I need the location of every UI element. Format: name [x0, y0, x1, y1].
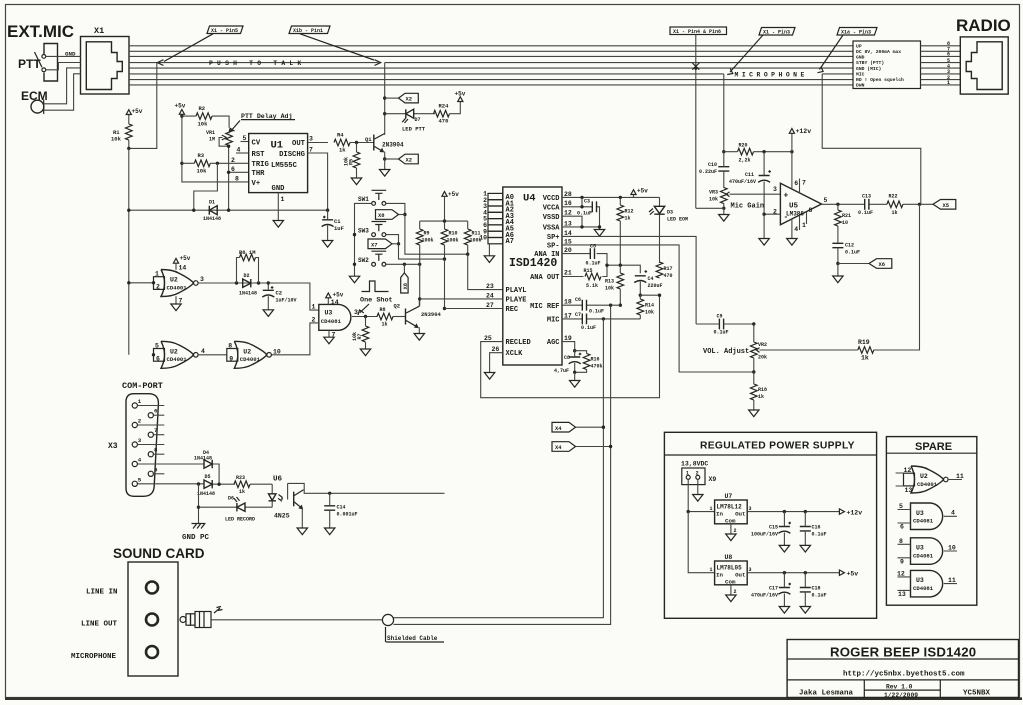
ground pin2/C11 — [759, 239, 769, 246]
wire R1 vertical rail — [128, 148, 130, 354]
svg-text:U3: U3 — [325, 310, 333, 317]
gate U2a CD4001 — [161, 270, 198, 297]
ground switch rail — [349, 276, 359, 283]
flag X1b-Pin1 — [289, 26, 330, 34]
svg-text:5: 5 — [243, 135, 247, 142]
wire plug to cable — [211, 619, 382, 621]
capacitor C1 — [322, 220, 334, 227]
svg-text:4: 4 — [951, 510, 955, 517]
resistor R11 — [464, 229, 471, 245]
svg-text:X8: X8 — [378, 212, 385, 219]
svg-text:REGULATED POWER SUPPLY: REGULATED POWER SUPPLY — [700, 441, 855, 452]
svg-text:1uF: 1uF — [334, 225, 344, 232]
svg-text:PLAYL: PLAYL — [506, 287, 527, 295]
svg-text:CV: CV — [252, 139, 261, 147]
svg-text:Jaka Lesmana: Jaka Lesmana — [799, 690, 854, 698]
ground Q2 — [414, 334, 424, 341]
svg-text:470k: 470k — [591, 364, 603, 370]
svg-text:2: 2 — [734, 528, 737, 534]
connector RADIO body — [960, 37, 1008, 94]
connector X1 body — [81, 37, 130, 95]
svg-text:X4: X4 — [555, 425, 562, 432]
leader X1a-Pin3 — [818, 35, 844, 73]
resistor R8 — [377, 313, 393, 320]
svg-text:REC: REC — [506, 306, 519, 314]
svg-text:R22: R22 — [889, 194, 898, 200]
svg-text:DC 8V, 200mA max: DC 8V, 200mA max — [856, 49, 901, 55]
svg-text:U6: U6 — [273, 476, 283, 484]
flag X1-Pin5 — [207, 26, 243, 34]
svg-text:3: 3 — [138, 437, 142, 444]
svg-text:5: 5 — [155, 343, 159, 350]
svg-text:6: 6 — [156, 356, 160, 363]
svg-text:4: 4 — [201, 348, 205, 355]
svg-text:1k: 1k — [625, 216, 631, 222]
svg-text:1k: 1k — [892, 210, 898, 216]
svg-text:A7: A7 — [506, 238, 514, 246]
wire AGC — [562, 342, 575, 351]
capacitor C15 — [778, 527, 790, 534]
svg-text:1uF/10V: 1uF/10V — [276, 298, 297, 304]
svg-text:8: 8 — [899, 538, 903, 545]
wire bus line2 DC8V — [129, 50, 853, 52]
power +5v pullups — [442, 192, 447, 197]
svg-text:VR3: VR3 — [709, 190, 718, 196]
power supply box — [664, 432, 876, 618]
flag X2 bottom — [385, 158, 399, 160]
wire RECLED loop — [481, 295, 660, 398]
wire ECM- to X1 — [44, 74, 81, 110]
svg-text:1: 1 — [686, 471, 689, 477]
wire D6 line — [199, 506, 273, 508]
svg-text:0.1uF: 0.1uF — [589, 309, 604, 315]
svg-text:1/22/2009: 1/22/2009 — [884, 692, 918, 699]
svg-text:X1b - Pin1: X1b - Pin1 — [293, 28, 323, 34]
svg-text:X9: X9 — [709, 476, 717, 483]
wire X9 pin2 gnd — [697, 479, 699, 494]
power +5v R1 — [126, 110, 131, 115]
switch PTT contacts — [42, 55, 46, 59]
svg-text:10: 10 — [948, 544, 956, 551]
wire R9 to Q2/PLAYE — [419, 264, 421, 306]
svg-text:C5: C5 — [590, 244, 596, 250]
svg-text:3: 3 — [354, 309, 358, 316]
svg-text:+5v: +5v — [455, 91, 466, 98]
wire pin4 to D4 — [137, 464, 219, 484]
svg-text:470: 470 — [439, 118, 449, 125]
wire MICREF drop — [394, 305, 611, 624]
svg-text:+5v: +5v — [175, 103, 186, 110]
pin1 stub — [799, 215, 801, 230]
ground C12 — [837, 264, 839, 277]
arrow right PUSH TO TALK — [375, 60, 381, 66]
resistor R6 — [240, 254, 256, 261]
capacitor C16 — [800, 527, 811, 531]
flag X6 — [838, 263, 869, 265]
svg-text:1: 1 — [138, 398, 142, 405]
wire U1 GND pin1 — [277, 193, 279, 221]
wire pullup top rail — [420, 220, 468, 222]
svg-text:EXT.MIC: EXT.MIC — [7, 22, 74, 41]
power +5v VCCD — [633, 195, 635, 198]
svg-text:13: 13 — [905, 487, 913, 494]
ground C2 — [263, 310, 273, 317]
svg-text:U3: U3 — [916, 510, 924, 517]
svg-text:UP: UP — [856, 43, 862, 49]
svg-text:MIC: MIC — [547, 317, 560, 325]
svg-text:C11: C11 — [745, 172, 754, 178]
svg-text:+12v: +12v — [796, 128, 812, 135]
svg-text:C15: C15 — [769, 525, 778, 531]
switch PTT frame — [44, 44, 58, 82]
svg-text:5: 5 — [138, 476, 142, 483]
svg-text:Q1: Q1 — [365, 136, 372, 143]
svg-text:16: 16 — [564, 200, 572, 207]
wire RST stub — [236, 152, 249, 154]
svg-text:8: 8 — [809, 207, 813, 214]
svg-text:100uF/16V: 100uF/16V — [751, 532, 778, 538]
svg-text:+5v: +5v — [847, 571, 859, 578]
svg-text:SW1: SW1 — [358, 196, 369, 203]
transistor Q2 2N3904 — [405, 309, 407, 325]
ground U2a pin7 — [175, 296, 177, 304]
svg-text:VCCA: VCCA — [543, 204, 561, 212]
svg-text:0.1uF: 0.1uF — [845, 250, 860, 256]
svg-text:ROGER BEEP ISD1420: ROGER BEEP ISD1420 — [830, 645, 976, 660]
address pin boxes A0-A7 — [488, 193, 503, 243]
svg-text:http://yc5nbx.byethost5.com: http://yc5nbx.byethost5.com — [843, 671, 965, 679]
diode D4 — [204, 460, 212, 468]
capacitor C5 — [590, 248, 594, 259]
svg-text:X1 - Pin3: X1 - Pin3 — [763, 29, 790, 35]
svg-text:10k: 10k — [344, 157, 350, 166]
svg-text:4N25: 4N25 — [274, 513, 290, 520]
svg-text:Com: Com — [725, 579, 736, 586]
svg-text:24: 24 — [486, 292, 494, 299]
svg-text:1k: 1k — [339, 147, 346, 154]
svg-text:GND (MIC): GND (MIC) — [856, 66, 882, 72]
gate U2b CD4001 — [161, 341, 198, 368]
svg-text:VR2: VR2 — [758, 342, 767, 348]
svg-text:Mic Gain: Mic Gain — [731, 203, 765, 211]
resistor R12 — [617, 205, 624, 221]
capacitor C3 — [592, 201, 596, 212]
svg-text:LINE IN: LINE IN — [86, 589, 118, 597]
svg-text:1k: 1k — [382, 322, 388, 328]
svg-text:6: 6 — [900, 524, 904, 531]
LED D7 — [385, 113, 435, 115]
svg-text:25: 25 — [484, 335, 492, 342]
wire ANA IN loop — [562, 254, 607, 277]
svg-text:4: 4 — [237, 147, 241, 154]
svg-text:C9: C9 — [717, 314, 723, 320]
svg-text:13: 13 — [564, 220, 572, 227]
svg-text:VSSD: VSSD — [543, 214, 560, 222]
wire X1-Pin4Pin6 drop — [695, 35, 697, 209]
wire PTT top to X1 — [46, 55, 81, 57]
svg-text:12: 12 — [897, 570, 905, 577]
wire SP- — [562, 245, 754, 372]
jack MICROPHONE — [146, 646, 158, 658]
svg-text:X4: X4 — [555, 444, 562, 451]
wire U2a input — [129, 282, 154, 284]
svg-text:5: 5 — [824, 197, 828, 204]
svg-text:C7: C7 — [575, 312, 581, 318]
trimmer VR3 — [721, 188, 728, 204]
switch PTT actuator — [35, 52, 42, 67]
svg-text:C10: C10 — [708, 162, 717, 168]
flag X4 a — [576, 426, 604, 428]
flag X2 top — [385, 97, 399, 99]
svg-text:U3: U3 — [916, 577, 924, 584]
wire U2a output — [198, 282, 268, 284]
svg-text:CD4081: CD4081 — [913, 585, 934, 592]
wire VR3 gnd rail — [696, 208, 724, 214]
wire THR tap — [229, 171, 249, 173]
svg-text:0.1uF: 0.1uF — [577, 211, 592, 217]
ground C1 — [322, 241, 332, 248]
svg-text:THR: THR — [252, 170, 266, 178]
svg-text:14: 14 — [564, 230, 572, 237]
wire bus line6 MIC right — [822, 73, 853, 75]
svg-text:15: 15 — [564, 238, 572, 245]
wire REC — [445, 308, 503, 310]
svg-text:D7: D7 — [415, 117, 421, 123]
svg-text:PUSH TO TALK: PUSH TO TALK — [209, 60, 305, 67]
svg-text:SPARE: SPARE — [915, 441, 952, 453]
svg-text:9: 9 — [229, 356, 233, 363]
svg-text:28: 28 — [564, 191, 572, 198]
svg-text:RD ! Open squelch: RD ! Open squelch — [856, 77, 904, 83]
svg-text:18: 18 — [564, 299, 572, 306]
wire TRIG to D1 node — [194, 163, 218, 210]
svg-text:R24: R24 — [439, 103, 450, 110]
svg-text:R19: R19 — [858, 339, 870, 346]
trimmer VR1 — [226, 130, 233, 146]
svg-text:STBY (PTT): STBY (PTT) — [856, 60, 884, 66]
connector RADIO plug inset — [966, 42, 1002, 90]
wire bus line5 GNDMIC — [129, 67, 853, 69]
svg-text:RST: RST — [252, 151, 266, 159]
svg-text:1: 1 — [281, 196, 285, 203]
svg-text:D2: D2 — [244, 273, 250, 279]
op-amp U5 LM386 — [780, 183, 821, 224]
svg-text:CD4001: CD4001 — [167, 284, 188, 291]
svg-text:LED PTT: LED PTT — [402, 126, 426, 133]
svg-text:1M: 1M — [209, 137, 215, 143]
svg-text:R18: R18 — [758, 387, 767, 393]
flag X1-Pin3 — [759, 28, 795, 36]
svg-text:D3: D3 — [667, 210, 673, 216]
LED D6 RECORD — [237, 503, 245, 511]
svg-text:470uF/16V: 470uF/16V — [729, 179, 756, 185]
svg-text:SP-: SP- — [547, 243, 560, 251]
wire SW1 right — [386, 203, 468, 254]
svg-text:U2: U2 — [920, 473, 928, 480]
wire ECM+ to X1 — [44, 68, 81, 104]
ground VSS — [594, 230, 604, 237]
svg-text:One Shot: One Shot — [360, 297, 393, 305]
svg-text:CD4081: CD4081 — [321, 318, 342, 325]
svg-text:6: 6 — [231, 166, 235, 173]
svg-text:R4: R4 — [337, 132, 344, 139]
svg-text:17: 17 — [564, 312, 572, 319]
wire Q1 emitter — [384, 159, 386, 170]
svg-text:8: 8 — [228, 343, 232, 350]
gate U2c CD4001 — [234, 341, 271, 368]
svg-text:U4: U4 — [523, 193, 536, 205]
svg-text:CD4001: CD4001 — [167, 356, 188, 363]
svg-text:CD4001: CD4001 — [917, 481, 938, 488]
svg-text:U7: U7 — [725, 493, 733, 500]
svg-text:13: 13 — [898, 591, 906, 598]
wire radio MIC feed — [822, 74, 921, 204]
wire SW3 right — [386, 235, 445, 260]
svg-text:VOL. Adjust: VOL. Adjust — [703, 348, 749, 356]
sound card box — [128, 562, 178, 676]
svg-text:C14: C14 — [337, 505, 346, 511]
leader X1b-Pin1 — [300, 34, 374, 60]
pin2 wire — [764, 213, 780, 215]
svg-text:R14: R14 — [645, 303, 654, 309]
svg-text:2: 2 — [734, 589, 737, 595]
svg-text:COM-PORT: COM-PORT — [122, 381, 163, 391]
svg-text:10k: 10k — [709, 197, 718, 203]
svg-text:YC5NBX: YC5NBX — [963, 690, 991, 698]
arrow +12v out — [839, 509, 844, 514]
capacitor C18 — [800, 588, 811, 592]
svg-text:1: 1 — [710, 567, 713, 573]
svg-text:7: 7 — [802, 180, 806, 187]
IC U4 box — [503, 187, 562, 365]
svg-text:U2: U2 — [170, 277, 178, 284]
svg-text:1k: 1k — [239, 489, 245, 495]
svg-text:8: 8 — [154, 447, 158, 454]
svg-text:Q2: Q2 — [394, 303, 401, 310]
svg-text:X1 - Pin5: X1 - Pin5 — [211, 28, 238, 34]
svg-text:1N4148: 1N4148 — [203, 216, 221, 222]
svg-text:10k: 10k — [352, 332, 358, 341]
wire bus line7 RD — [129, 79, 853, 81]
svg-text:220uF: 220uF — [648, 283, 663, 289]
microphone ECM — [31, 100, 44, 113]
svg-text:LM78L05: LM78L05 — [717, 565, 743, 572]
trimmer VR2 — [751, 342, 758, 358]
svg-text:R3: R3 — [198, 152, 205, 159]
wire MIC REF — [562, 304, 620, 306]
svg-text:X7: X7 — [371, 241, 378, 248]
power +12v — [791, 133, 793, 151]
gate U3 spare AND 12,13-11 — [911, 570, 943, 597]
flag X1a-Pin3 — [837, 28, 877, 36]
svg-text:CD4081: CD4081 — [913, 518, 934, 525]
svg-text:LINE OUT: LINE OUT — [81, 621, 118, 629]
wire U7 com gnd — [730, 524, 732, 534]
svg-text:R15: R15 — [584, 268, 593, 274]
connector X9 — [682, 468, 705, 485]
wire VCCD — [562, 196, 660, 198]
wire U1 OUT — [308, 142, 328, 144]
svg-text:2: 2 — [138, 418, 142, 425]
wire MIC line6 drop — [723, 74, 725, 152]
wire VCCA / C3 — [562, 197, 600, 227]
svg-text:R8: R8 — [380, 307, 386, 313]
diode D2 1N4148 — [243, 279, 251, 287]
wire U3 output — [352, 316, 378, 318]
svg-text:X2: X2 — [406, 96, 413, 103]
svg-text:470: 470 — [664, 273, 673, 279]
svg-text:10: 10 — [479, 235, 487, 242]
ground Q1 — [380, 170, 390, 177]
svg-text:+12v: +12v — [847, 510, 863, 517]
svg-text:7: 7 — [154, 427, 158, 434]
resistor R19 — [858, 347, 874, 354]
svg-text:0.1uF: 0.1uF — [581, 325, 596, 331]
ground GND PC hatched — [192, 524, 206, 529]
gate U3 CD4081 — [319, 304, 351, 330]
svg-text:+5v: +5v — [448, 191, 459, 198]
resistor R3 — [194, 160, 210, 167]
svg-text:XCLK: XCLK — [506, 350, 524, 358]
wire U7 out — [747, 511, 839, 513]
svg-text:VSSA: VSSA — [543, 225, 561, 233]
wire bus line3 GND — [129, 55, 853, 57]
arrow +5v out — [839, 570, 844, 575]
svg-text:SW3: SW3 — [358, 227, 369, 234]
resistor R9 — [416, 229, 423, 245]
svg-text:X1: X1 — [94, 26, 104, 36]
svg-text:11: 11 — [956, 473, 964, 480]
svg-text:7: 7 — [332, 332, 336, 339]
svg-text:0.1uF: 0.1uF — [812, 532, 827, 538]
svg-text:R12: R12 — [625, 209, 634, 215]
svg-text:3: 3 — [773, 186, 777, 193]
svg-text:U3: U3 — [916, 545, 924, 552]
svg-text:C2: C2 — [276, 290, 283, 297]
svg-text:CD4081: CD4081 — [913, 552, 934, 559]
capacitor C17 — [778, 588, 790, 595]
svg-text:9: 9 — [900, 558, 904, 565]
wire X9 pin1 — [688, 479, 714, 511]
capacitor C13 — [865, 199, 869, 210]
svg-text:SP+: SP+ — [547, 234, 560, 242]
svg-text:ANA OUT: ANA OUT — [530, 274, 559, 282]
junction X mark line5 — [692, 63, 699, 70]
ground U6 emitter — [297, 528, 307, 535]
capacitor C14 — [328, 492, 331, 495]
resistor R21 — [835, 210, 842, 226]
svg-text:Out: Out — [735, 511, 745, 518]
svg-text:6: 6 — [794, 180, 798, 187]
svg-text:23: 23 — [486, 283, 494, 290]
svg-text:SW2: SW2 — [358, 257, 369, 264]
svg-text:VR1: VR1 — [206, 130, 215, 136]
svg-text:C12: C12 — [845, 243, 854, 249]
resistor R1 — [126, 124, 133, 140]
svg-text:1N4148: 1N4148 — [197, 491, 215, 497]
svg-text:GND: GND — [272, 185, 286, 193]
svg-text:11: 11 — [948, 577, 956, 584]
wire SW1 left — [355, 203, 372, 276]
svg-text:2N3904: 2N3904 — [421, 311, 442, 318]
svg-text:CD4001: CD4001 — [240, 356, 261, 363]
wire bus line6 MIC left — [129, 73, 724, 75]
pin4 ground — [791, 219, 793, 239]
svg-text:3: 3 — [749, 567, 752, 573]
pin8 stub — [806, 212, 808, 224]
resistor R14 — [637, 299, 644, 315]
svg-text:R17: R17 — [664, 266, 673, 272]
